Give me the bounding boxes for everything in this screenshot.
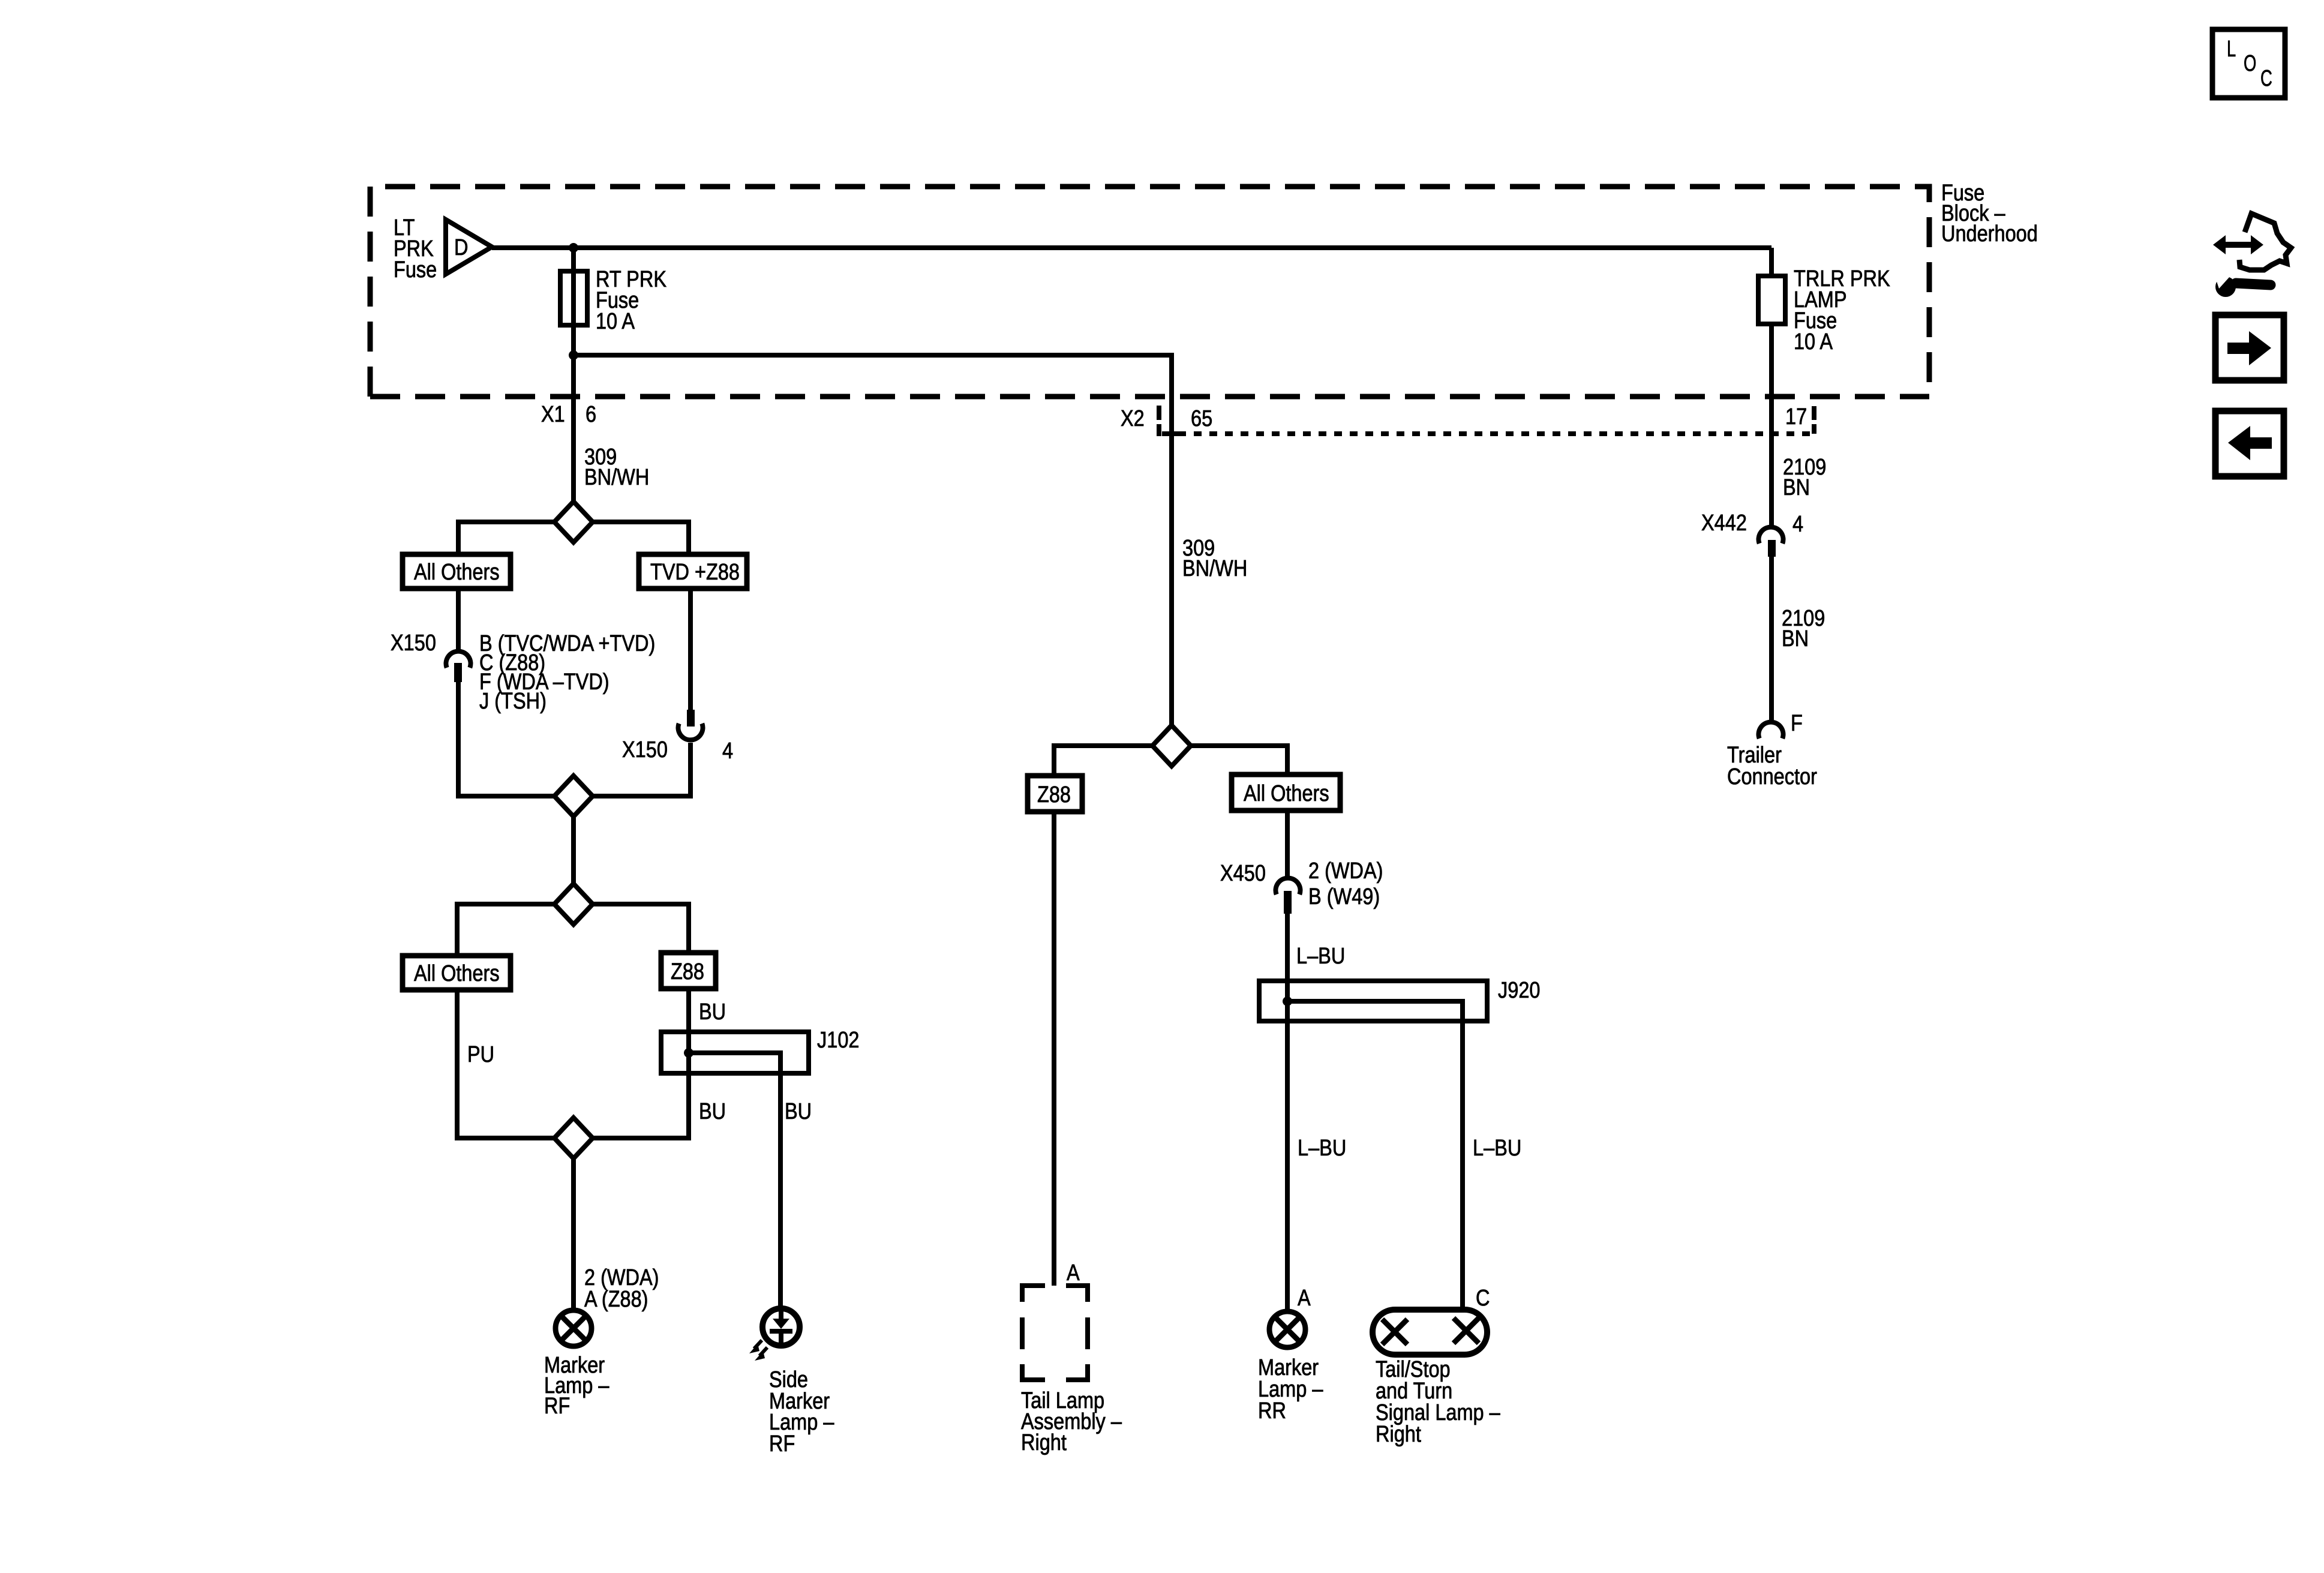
splice diamond S2 xyxy=(554,776,593,816)
wire label 309 BN/WH (middle) xyxy=(1182,536,1247,581)
wire from junction down through RT PRK fuse xyxy=(571,248,576,355)
svg-text:X2: X2 xyxy=(1121,406,1145,431)
option box: All Others (upper left) xyxy=(403,554,511,589)
dashed box: Tail Lamp Assembly - Right xyxy=(1020,1286,1090,1380)
svg-text:X442: X442 xyxy=(1701,511,1747,536)
wire TVD box down to X150 pin 4 xyxy=(688,589,693,727)
wire S4 down to marker lamp RF xyxy=(571,1158,576,1310)
svg-text:L–BU: L–BU xyxy=(1298,1136,1346,1161)
label: Marker Lamp - RF xyxy=(544,1353,609,1419)
icon: back arrow button xyxy=(2215,411,2284,476)
svg-text:RF: RF xyxy=(544,1394,570,1419)
svg-text:Right: Right xyxy=(1376,1422,1421,1447)
wire J920 down to marker lamp RR xyxy=(1285,1021,1290,1311)
svg-text:TVD +Z88: TVD +Z88 xyxy=(650,560,740,585)
wire X150 pin 4 down to splice S2 xyxy=(593,743,690,796)
svg-text:4: 4 xyxy=(722,739,733,764)
splice pack J102 xyxy=(661,1032,809,1073)
svg-text:C: C xyxy=(2260,66,2272,91)
label: Trailer Connector xyxy=(1727,743,1817,789)
connector X150 (pins B/C/F/J) xyxy=(446,652,471,682)
label: Side Marker Lamp - RF xyxy=(769,1367,834,1457)
svg-text:BN/WH: BN/WH xyxy=(1182,556,1247,581)
label: TRLR PRK LAMP Fuse 10 A xyxy=(1794,266,1890,355)
svg-text:4: 4 xyxy=(1792,512,1803,537)
wire S2 to S3 xyxy=(571,816,576,884)
trailer connector terminal F xyxy=(1759,722,1783,739)
wire X1 pin 6 down to splice S1 xyxy=(571,355,576,502)
svg-text:Right: Right xyxy=(1021,1430,1067,1455)
wire: fuse block top feed to TRLR PRK fuse xyxy=(1769,248,1774,276)
svg-text:X150: X150 xyxy=(622,737,668,763)
wire label 309 BN/WH (left) xyxy=(584,445,649,490)
connector X150 pin 4 xyxy=(678,710,703,740)
svg-text:BN: BN xyxy=(1782,626,1809,652)
pin labels 2 (WDA) / A (Z88) xyxy=(584,1265,659,1312)
svg-text:J920: J920 xyxy=(1498,978,1541,1003)
wire Z88 box down to J102 xyxy=(686,989,691,1032)
splice diamond S1 xyxy=(554,502,593,542)
wire X450 down to J920 xyxy=(1285,914,1290,981)
svg-text:B (W49): B (W49) xyxy=(1308,884,1380,909)
option box: All Others (middle) xyxy=(1232,775,1340,810)
wire label 2109 BN (lower) xyxy=(1782,606,1825,652)
fuse RT PRK 10 A xyxy=(560,271,587,325)
svg-text:Z88: Z88 xyxy=(671,959,704,984)
fuse TRLR PRK LAMP 10 A xyxy=(1758,276,1785,324)
lamp: Side Marker Lamp - RF (LED) xyxy=(762,1308,800,1346)
svg-text:PU: PU xyxy=(467,1042,494,1067)
wire J102 down to splice S4 xyxy=(593,1073,689,1138)
label: LT PRK Fuse xyxy=(394,215,437,283)
svg-text:D: D xyxy=(454,235,469,260)
splice diamond S3 xyxy=(554,884,593,924)
lamp: Marker Lamp - RF xyxy=(556,1310,591,1346)
svg-text:10 A: 10 A xyxy=(596,309,635,334)
option box: Z88 (left) xyxy=(661,953,716,989)
svg-text:BN/WH: BN/WH xyxy=(584,465,649,490)
wire TRLR PRK fuse down to X442 xyxy=(1769,324,1774,526)
svg-text:A: A xyxy=(1067,1260,1080,1286)
svg-text:X1: X1 xyxy=(541,402,565,427)
svg-text:L–BU: L–BU xyxy=(1296,944,1345,969)
connector X450 pin 2/B xyxy=(1276,878,1301,914)
svg-text:O: O xyxy=(2244,51,2256,76)
wire All Others box down to X150 xyxy=(456,589,461,652)
svg-text:All Others: All Others xyxy=(414,560,500,585)
wire J102 branch down to side marker lamp xyxy=(778,1073,783,1310)
svg-text:RR: RR xyxy=(1258,1398,1286,1424)
wire: hot feed from LT PRK fuse across fuse block xyxy=(492,245,1771,250)
svg-text:2 (WDA): 2 (WDA) xyxy=(1308,858,1383,884)
icon: forward arrow button xyxy=(2215,315,2284,380)
label: Tail/Stop and Turn Signal Lamp - Right xyxy=(1376,1357,1500,1447)
wire X150 pin B down to splice S2 xyxy=(458,682,554,796)
option box: All Others (lower left) xyxy=(403,956,511,990)
LT PRK Fuse triangle D xyxy=(446,220,492,274)
svg-text:BN: BN xyxy=(1783,475,1810,500)
svg-text:6: 6 xyxy=(585,402,596,427)
icon: LOC box xyxy=(2212,29,2285,98)
splice pack J920 xyxy=(1259,981,1487,1021)
option box: TVD +Z88 xyxy=(639,554,747,589)
svg-text:17: 17 xyxy=(1785,404,1807,430)
lamp: Marker Lamp - RR xyxy=(1269,1311,1305,1347)
svg-text:C: C xyxy=(1476,1286,1490,1311)
wire J920 branch down to tail/stop lamp xyxy=(1460,1021,1465,1310)
wire from junction to X2 pin 65 xyxy=(574,355,1172,725)
lamp: Tail/Stop and Turn Signal Lamp - Right xyxy=(1373,1310,1487,1355)
svg-text:All Others: All Others xyxy=(414,961,500,986)
wire All Others box down to X450 xyxy=(1285,810,1290,877)
svg-text:BU: BU xyxy=(699,999,726,1025)
svg-text:X450: X450 xyxy=(1220,861,1266,886)
option box: Z88 (middle) xyxy=(1028,776,1082,812)
wire label 2109 BN (upper) xyxy=(1783,455,1826,500)
junction node above RT PRK fuse xyxy=(569,243,578,253)
wire S3 branches to option boxes xyxy=(457,904,689,956)
light emission arrows xyxy=(749,1340,767,1361)
svg-text:J (TSH): J (TSH) xyxy=(479,689,547,714)
connector X442 pin 4 xyxy=(1759,527,1783,557)
svg-text:RF: RF xyxy=(769,1431,795,1457)
junction node below RT PRK fuse xyxy=(569,350,578,360)
svg-text:A (Z88): A (Z88) xyxy=(584,1287,648,1312)
svg-text:J102: J102 xyxy=(817,1028,860,1053)
label: Marker Lamp - RR xyxy=(1258,1355,1323,1424)
wire S1 branches to option boxes xyxy=(458,522,689,554)
label: Tail Lamp Assembly - Right xyxy=(1021,1388,1122,1455)
labels: X150 pin list xyxy=(479,631,655,714)
icon: component location (arrow through part with wrench) xyxy=(2213,214,2291,297)
svg-text:Connector: Connector xyxy=(1727,764,1817,789)
svg-text:L–BU: L–BU xyxy=(1473,1136,1521,1161)
svg-text:A: A xyxy=(1298,1286,1311,1311)
svg-text:BU: BU xyxy=(699,1099,726,1124)
svg-text:X150: X150 xyxy=(391,631,436,656)
svg-text:L: L xyxy=(2227,37,2236,62)
wire X442 down to trailer connector xyxy=(1769,557,1774,720)
svg-text:10 A: 10 A xyxy=(1794,329,1833,355)
svg-text:F: F xyxy=(1791,711,1803,736)
svg-text:Underhood: Underhood xyxy=(1941,221,2038,247)
wire S5 branches xyxy=(1054,746,1287,776)
svg-text:65: 65 xyxy=(1191,406,1212,431)
svg-text:Z88: Z88 xyxy=(1037,782,1071,807)
wire All Others lower box down to splice S4, label PU xyxy=(457,990,554,1138)
fuse block underhood dashed box xyxy=(370,187,1929,397)
connector X2 dashed strip xyxy=(1159,406,1814,436)
wire Z88 box down to tail lamp assembly pin A xyxy=(1052,812,1056,1286)
splice diamond S4 xyxy=(554,1118,593,1158)
svg-text:Fuse: Fuse xyxy=(394,257,437,283)
label: Fuse Block - Underhood xyxy=(1941,181,2038,247)
label: RT PRK Fuse 10 A xyxy=(596,267,666,334)
svg-text:All Others: All Others xyxy=(1244,781,1329,806)
svg-text:BU: BU xyxy=(785,1099,812,1124)
splice diamond S5 xyxy=(1152,725,1191,766)
labels: pins 2 (WDA) / B (W49) xyxy=(1308,858,1383,909)
